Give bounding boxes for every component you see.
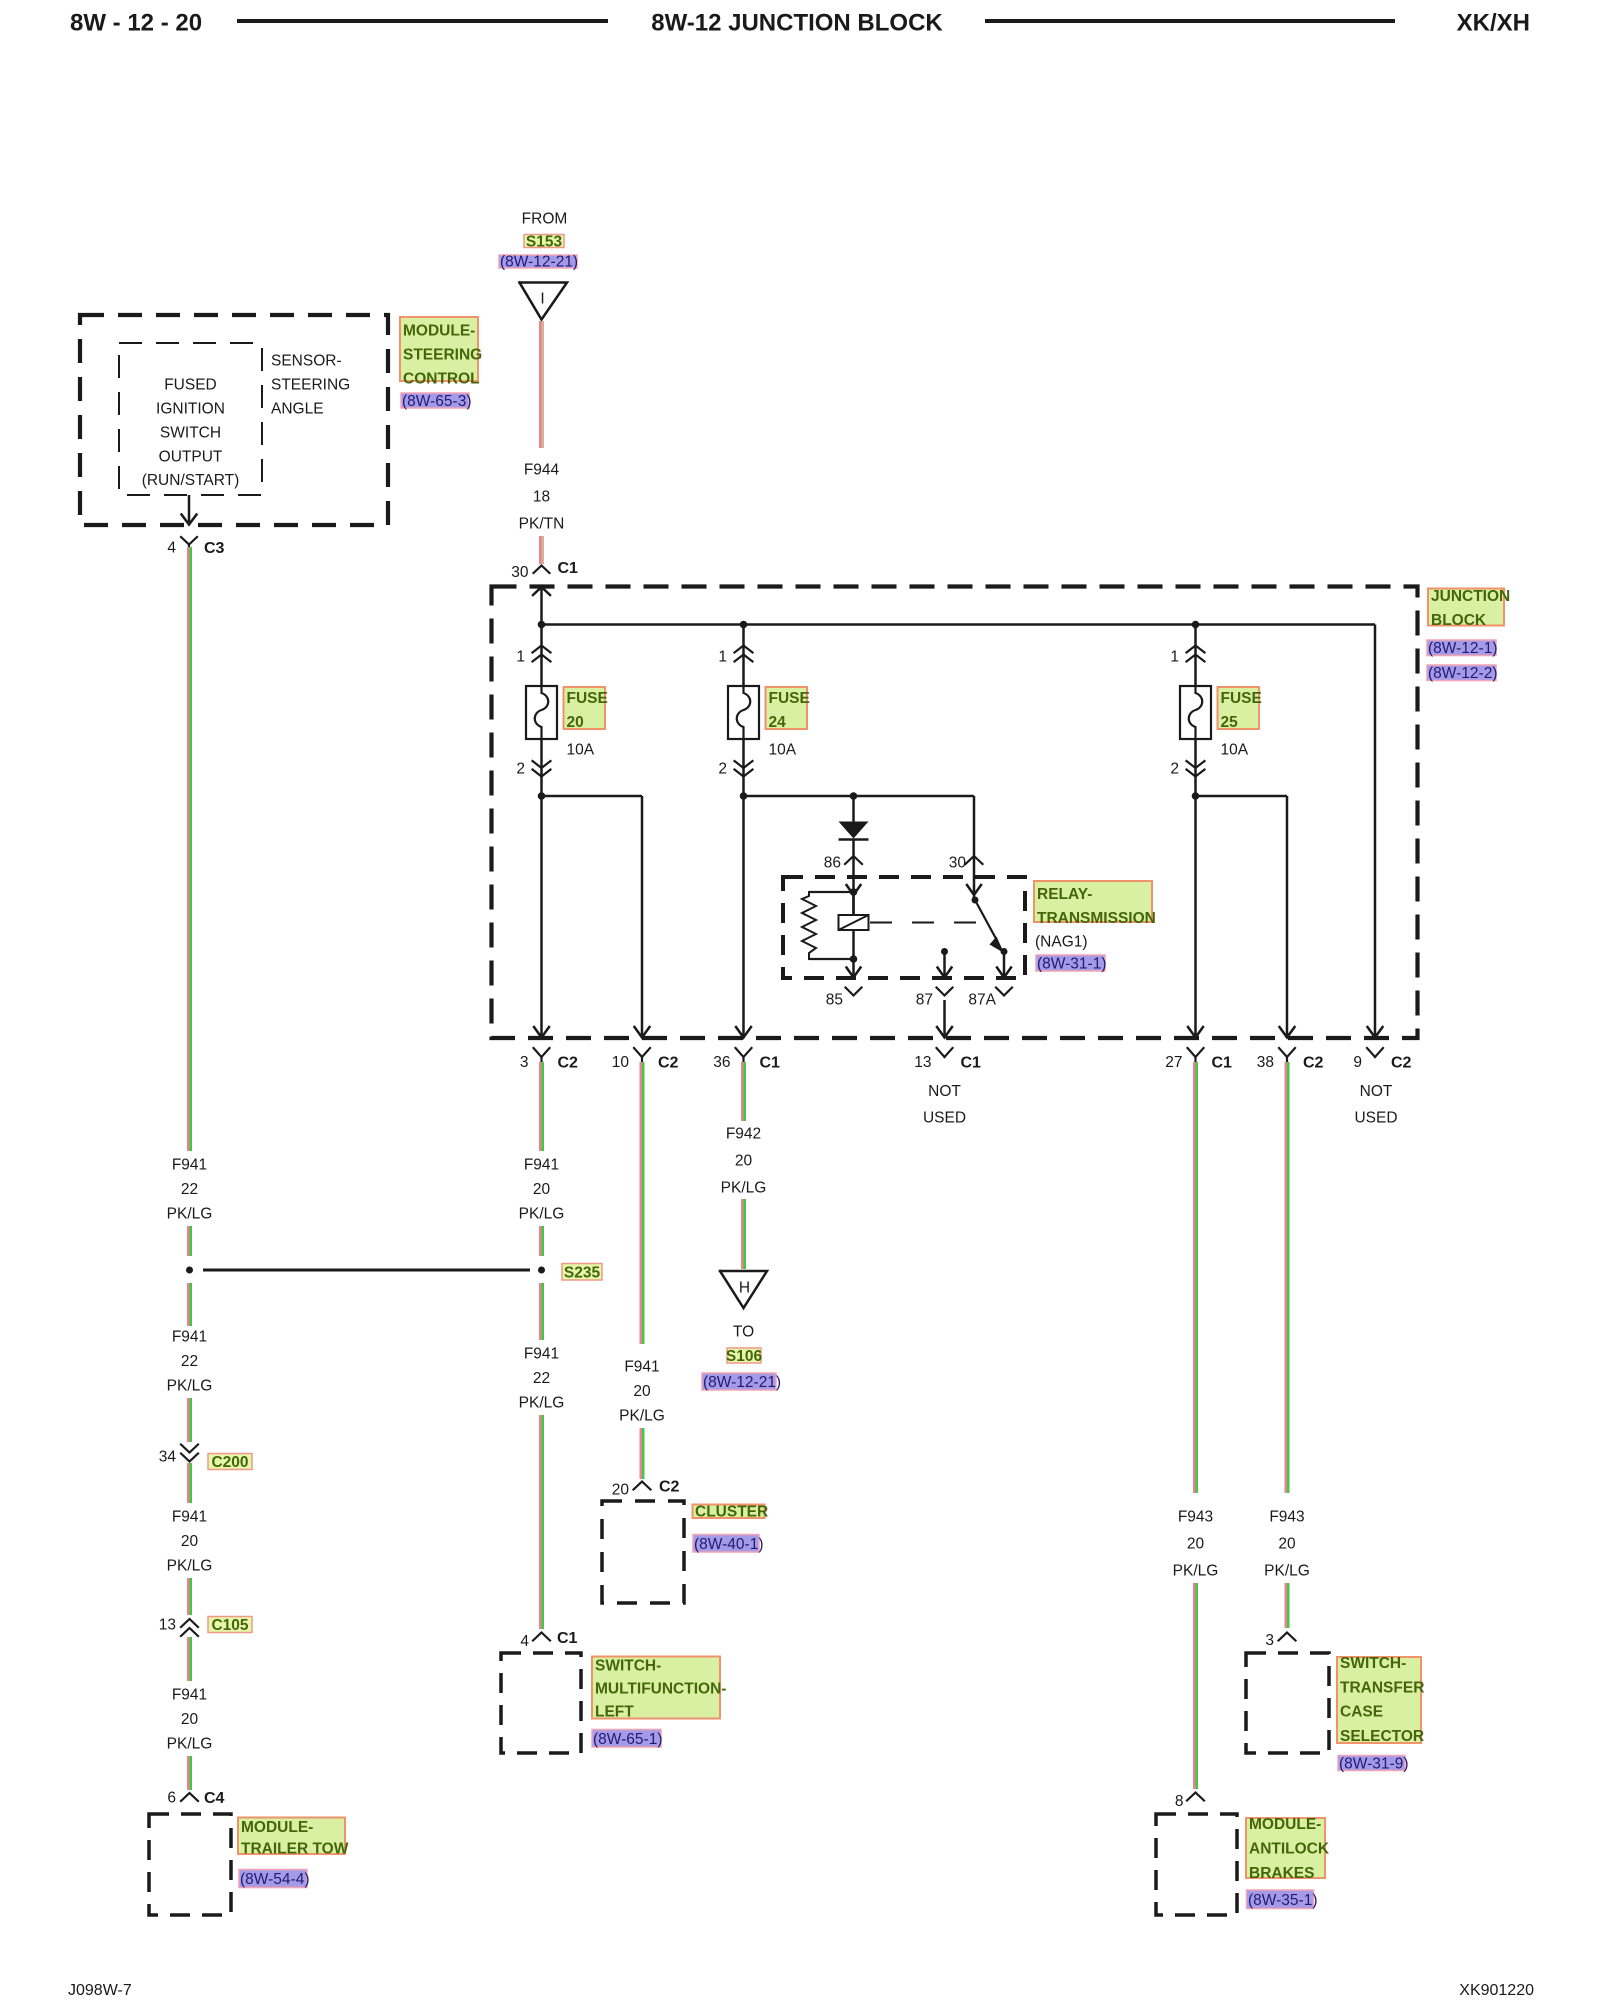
- svg-text:F941: F941: [524, 1346, 559, 1363]
- svg-text:86: 86: [824, 855, 841, 872]
- svg-text:STEERING: STEERING: [271, 377, 350, 394]
- svg-text:PK/LG: PK/LG: [721, 1180, 767, 1197]
- svg-text:C2: C2: [1303, 1054, 1324, 1071]
- svg-text:85: 85: [826, 992, 843, 1009]
- svg-text:JUNCTION: JUNCTION: [1431, 588, 1510, 605]
- svg-text:4: 4: [520, 1633, 529, 1650]
- svg-text:TO: TO: [733, 1324, 754, 1341]
- svg-text:20: 20: [633, 1383, 651, 1400]
- svg-text:10: 10: [612, 1054, 630, 1071]
- svg-text:(8W-12-1): (8W-12-1): [1428, 640, 1497, 657]
- svg-text:TRANSMISSION: TRANSMISSION: [1037, 910, 1156, 927]
- svg-text:(8W-12-2): (8W-12-2): [1428, 665, 1497, 682]
- svg-text:8W - 12 - 20: 8W - 12 - 20: [70, 10, 202, 37]
- svg-text:F943: F943: [1178, 1509, 1213, 1526]
- svg-text:J098W-7: J098W-7: [68, 1982, 132, 1999]
- svg-text:FUSED: FUSED: [164, 377, 217, 394]
- svg-text:S106: S106: [726, 1348, 763, 1365]
- svg-text:C1: C1: [1212, 1054, 1233, 1071]
- svg-text:22: 22: [533, 1370, 550, 1387]
- svg-text:F941: F941: [172, 1329, 207, 1346]
- svg-text:C2: C2: [658, 1054, 679, 1071]
- svg-text:F941: F941: [624, 1359, 659, 1376]
- svg-text:3: 3: [1265, 1632, 1274, 1649]
- svg-text:FROM: FROM: [522, 211, 568, 228]
- svg-text:FUSE: FUSE: [769, 690, 810, 707]
- svg-text:22: 22: [181, 1353, 198, 1370]
- svg-text:F941: F941: [172, 1157, 207, 1174]
- svg-text:PK/LG: PK/LG: [1173, 1563, 1219, 1580]
- svg-text:(8W-12-21): (8W-12-21): [500, 254, 578, 271]
- svg-text:PK/LG: PK/LG: [167, 1378, 213, 1395]
- svg-text:CASE: CASE: [1340, 1704, 1383, 1721]
- svg-text:8: 8: [1175, 1793, 1184, 1810]
- svg-text:BRAKES: BRAKES: [1249, 1865, 1314, 1882]
- svg-text:10A: 10A: [769, 742, 797, 759]
- svg-text:2: 2: [718, 761, 727, 778]
- svg-text:8W-12 JUNCTION BLOCK: 8W-12 JUNCTION BLOCK: [651, 10, 943, 37]
- svg-text:PK/LG: PK/LG: [519, 1206, 565, 1223]
- svg-text:F941: F941: [172, 1687, 207, 1704]
- svg-text:PK/LG: PK/LG: [167, 1736, 213, 1753]
- svg-text:USED: USED: [923, 1110, 966, 1127]
- svg-text:S235: S235: [564, 1264, 601, 1281]
- svg-text:F942: F942: [726, 1126, 761, 1143]
- svg-text:SELECTOR: SELECTOR: [1340, 1728, 1424, 1745]
- svg-text:20: 20: [1187, 1536, 1205, 1553]
- svg-text:20: 20: [567, 714, 584, 731]
- svg-text:SWITCH-: SWITCH-: [595, 1658, 661, 1675]
- svg-text:TRANSFER: TRANSFER: [1340, 1679, 1424, 1696]
- svg-text:C200: C200: [211, 1454, 248, 1471]
- svg-text:FUSE: FUSE: [1221, 690, 1262, 707]
- svg-text:NOT: NOT: [1360, 1083, 1393, 1100]
- svg-text:RELAY-: RELAY-: [1037, 886, 1092, 903]
- svg-text:PK/LG: PK/LG: [519, 1395, 565, 1412]
- svg-text:25: 25: [1221, 714, 1239, 731]
- svg-text:22: 22: [181, 1181, 198, 1198]
- svg-text:FUSE: FUSE: [567, 690, 608, 707]
- svg-text:I: I: [540, 291, 544, 308]
- svg-text:F944: F944: [524, 462, 560, 479]
- svg-text:NOT: NOT: [928, 1083, 961, 1100]
- svg-text:SWITCH-: SWITCH-: [1340, 1655, 1406, 1672]
- svg-text:CONTROL: CONTROL: [403, 371, 480, 388]
- svg-text:USED: USED: [1354, 1110, 1397, 1127]
- svg-text:STEERING: STEERING: [403, 347, 482, 364]
- svg-text:2: 2: [1170, 761, 1179, 778]
- svg-text:LEFT: LEFT: [595, 1704, 634, 1721]
- svg-text:BLOCK: BLOCK: [1431, 612, 1487, 629]
- svg-text:34: 34: [159, 1449, 177, 1466]
- svg-text:TRAILER TOW: TRAILER TOW: [241, 1841, 349, 1858]
- svg-text:20: 20: [533, 1181, 551, 1198]
- svg-text:C1: C1: [760, 1054, 781, 1071]
- svg-text:4: 4: [167, 540, 176, 557]
- svg-text:SENSOR-: SENSOR-: [271, 353, 342, 370]
- svg-text:(8W-65-3): (8W-65-3): [402, 393, 471, 410]
- svg-text:H: H: [739, 1280, 750, 1297]
- svg-text:(RUN/START): (RUN/START): [142, 472, 240, 489]
- svg-text:13: 13: [914, 1054, 931, 1071]
- svg-text:13: 13: [159, 1617, 176, 1634]
- svg-text:C105: C105: [211, 1617, 248, 1634]
- svg-text:ANTILOCK: ANTILOCK: [1249, 1841, 1330, 1858]
- svg-text:(8W-54-4): (8W-54-4): [240, 1871, 309, 1888]
- svg-text:C4: C4: [204, 1790, 225, 1807]
- svg-text:30: 30: [511, 564, 529, 581]
- svg-text:PK/LG: PK/LG: [1264, 1563, 1310, 1580]
- svg-text:1: 1: [1170, 649, 1179, 666]
- svg-text:PK/LG: PK/LG: [619, 1408, 665, 1425]
- svg-text:20: 20: [612, 1482, 630, 1499]
- svg-text:OUTPUT: OUTPUT: [159, 448, 223, 465]
- svg-text:PK/LG: PK/LG: [167, 1206, 213, 1223]
- svg-text:PK/TN: PK/TN: [519, 516, 565, 533]
- svg-text:XK901220: XK901220: [1459, 1982, 1534, 1999]
- svg-text:S153: S153: [526, 234, 563, 251]
- svg-text:24: 24: [769, 714, 787, 731]
- svg-text:C1: C1: [557, 1630, 578, 1647]
- svg-text:10A: 10A: [567, 742, 595, 759]
- svg-text:(8W-40-1): (8W-40-1): [694, 1536, 763, 1553]
- svg-text:XK/XH: XK/XH: [1457, 10, 1530, 37]
- svg-text:CLUSTER: CLUSTER: [695, 1504, 768, 1521]
- svg-text:SWITCH: SWITCH: [160, 424, 221, 441]
- svg-text:30: 30: [949, 855, 967, 872]
- svg-text:F943: F943: [1269, 1509, 1304, 1526]
- svg-text:MULTIFUNCTION-: MULTIFUNCTION-: [595, 1681, 726, 1698]
- svg-text:38: 38: [1257, 1054, 1274, 1071]
- svg-text:MODULE-: MODULE-: [241, 1819, 313, 1836]
- svg-text:MODULE-: MODULE-: [1249, 1816, 1321, 1833]
- svg-text:PK/LG: PK/LG: [167, 1558, 213, 1575]
- svg-text:18: 18: [533, 489, 550, 506]
- svg-text:20: 20: [181, 1533, 199, 1550]
- svg-text:6: 6: [167, 1790, 176, 1807]
- svg-text:F941: F941: [524, 1157, 559, 1174]
- svg-text:3: 3: [520, 1054, 529, 1071]
- svg-text:9: 9: [1353, 1054, 1362, 1071]
- svg-text:87A: 87A: [968, 992, 996, 1009]
- svg-text:(8W-31-1): (8W-31-1): [1037, 956, 1106, 973]
- svg-text:ANGLE: ANGLE: [271, 401, 324, 418]
- svg-text:C3: C3: [204, 540, 225, 557]
- svg-text:C2: C2: [1391, 1054, 1412, 1071]
- svg-text:10A: 10A: [1221, 742, 1249, 759]
- svg-text:20: 20: [735, 1153, 753, 1170]
- svg-text:27: 27: [1165, 1054, 1182, 1071]
- svg-text:2: 2: [516, 761, 525, 778]
- svg-text:1: 1: [718, 649, 727, 666]
- svg-text:(8W-35-1): (8W-35-1): [1248, 1892, 1317, 1909]
- svg-text:1: 1: [516, 649, 525, 666]
- svg-text:36: 36: [713, 1054, 730, 1071]
- svg-text:C1: C1: [961, 1054, 982, 1071]
- svg-text:(8W-65-1): (8W-65-1): [593, 1731, 662, 1748]
- svg-text:C1: C1: [558, 560, 579, 577]
- svg-text:87: 87: [916, 992, 933, 1009]
- svg-text:C2: C2: [558, 1054, 579, 1071]
- svg-text:C2: C2: [659, 1478, 680, 1495]
- svg-text:(8W-12-21): (8W-12-21): [703, 1374, 781, 1391]
- svg-text:20: 20: [181, 1711, 199, 1728]
- svg-text:F941: F941: [172, 1509, 207, 1526]
- svg-text:IGNITION: IGNITION: [156, 401, 225, 418]
- svg-text:20: 20: [1278, 1536, 1296, 1553]
- svg-text:MODULE-: MODULE-: [403, 323, 475, 340]
- svg-text:(8W-31-9): (8W-31-9): [1339, 1756, 1408, 1773]
- svg-text:(NAG1): (NAG1): [1035, 934, 1088, 951]
